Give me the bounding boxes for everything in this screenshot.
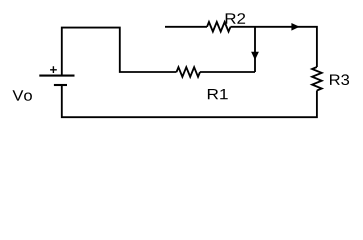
label Vo (source voltage): [13, 90, 32, 101]
resistor R1: [177, 67, 201, 77]
resistor R3: [312, 67, 322, 91]
current arrow pointing right on top wire: [291, 23, 299, 31]
wire: open stub into R2: [165, 26, 207, 28]
battery long plate (positive terminal): [39, 75, 74, 77]
battery short plate (negative terminal): [54, 84, 67, 86]
label R3: [330, 74, 349, 85]
wire: R2 right along top, corner, down to R3: [231, 27, 317, 67]
current arrow pointing down at junction: [251, 52, 259, 60]
resistor R2: [207, 22, 231, 32]
plus sign of source: [50, 66, 57, 73]
label R1: [208, 89, 228, 99]
wire: vertical branch from top wire down to junction: [254, 27, 256, 72]
wire: R1 right to junction node: [200, 71, 255, 73]
wire: source positive up, across top-left, down to middle, right to R1: [62, 28, 177, 76]
label R2: [226, 13, 245, 24]
wire: R3 down, bottom return, up to source negative: [62, 85, 317, 117]
